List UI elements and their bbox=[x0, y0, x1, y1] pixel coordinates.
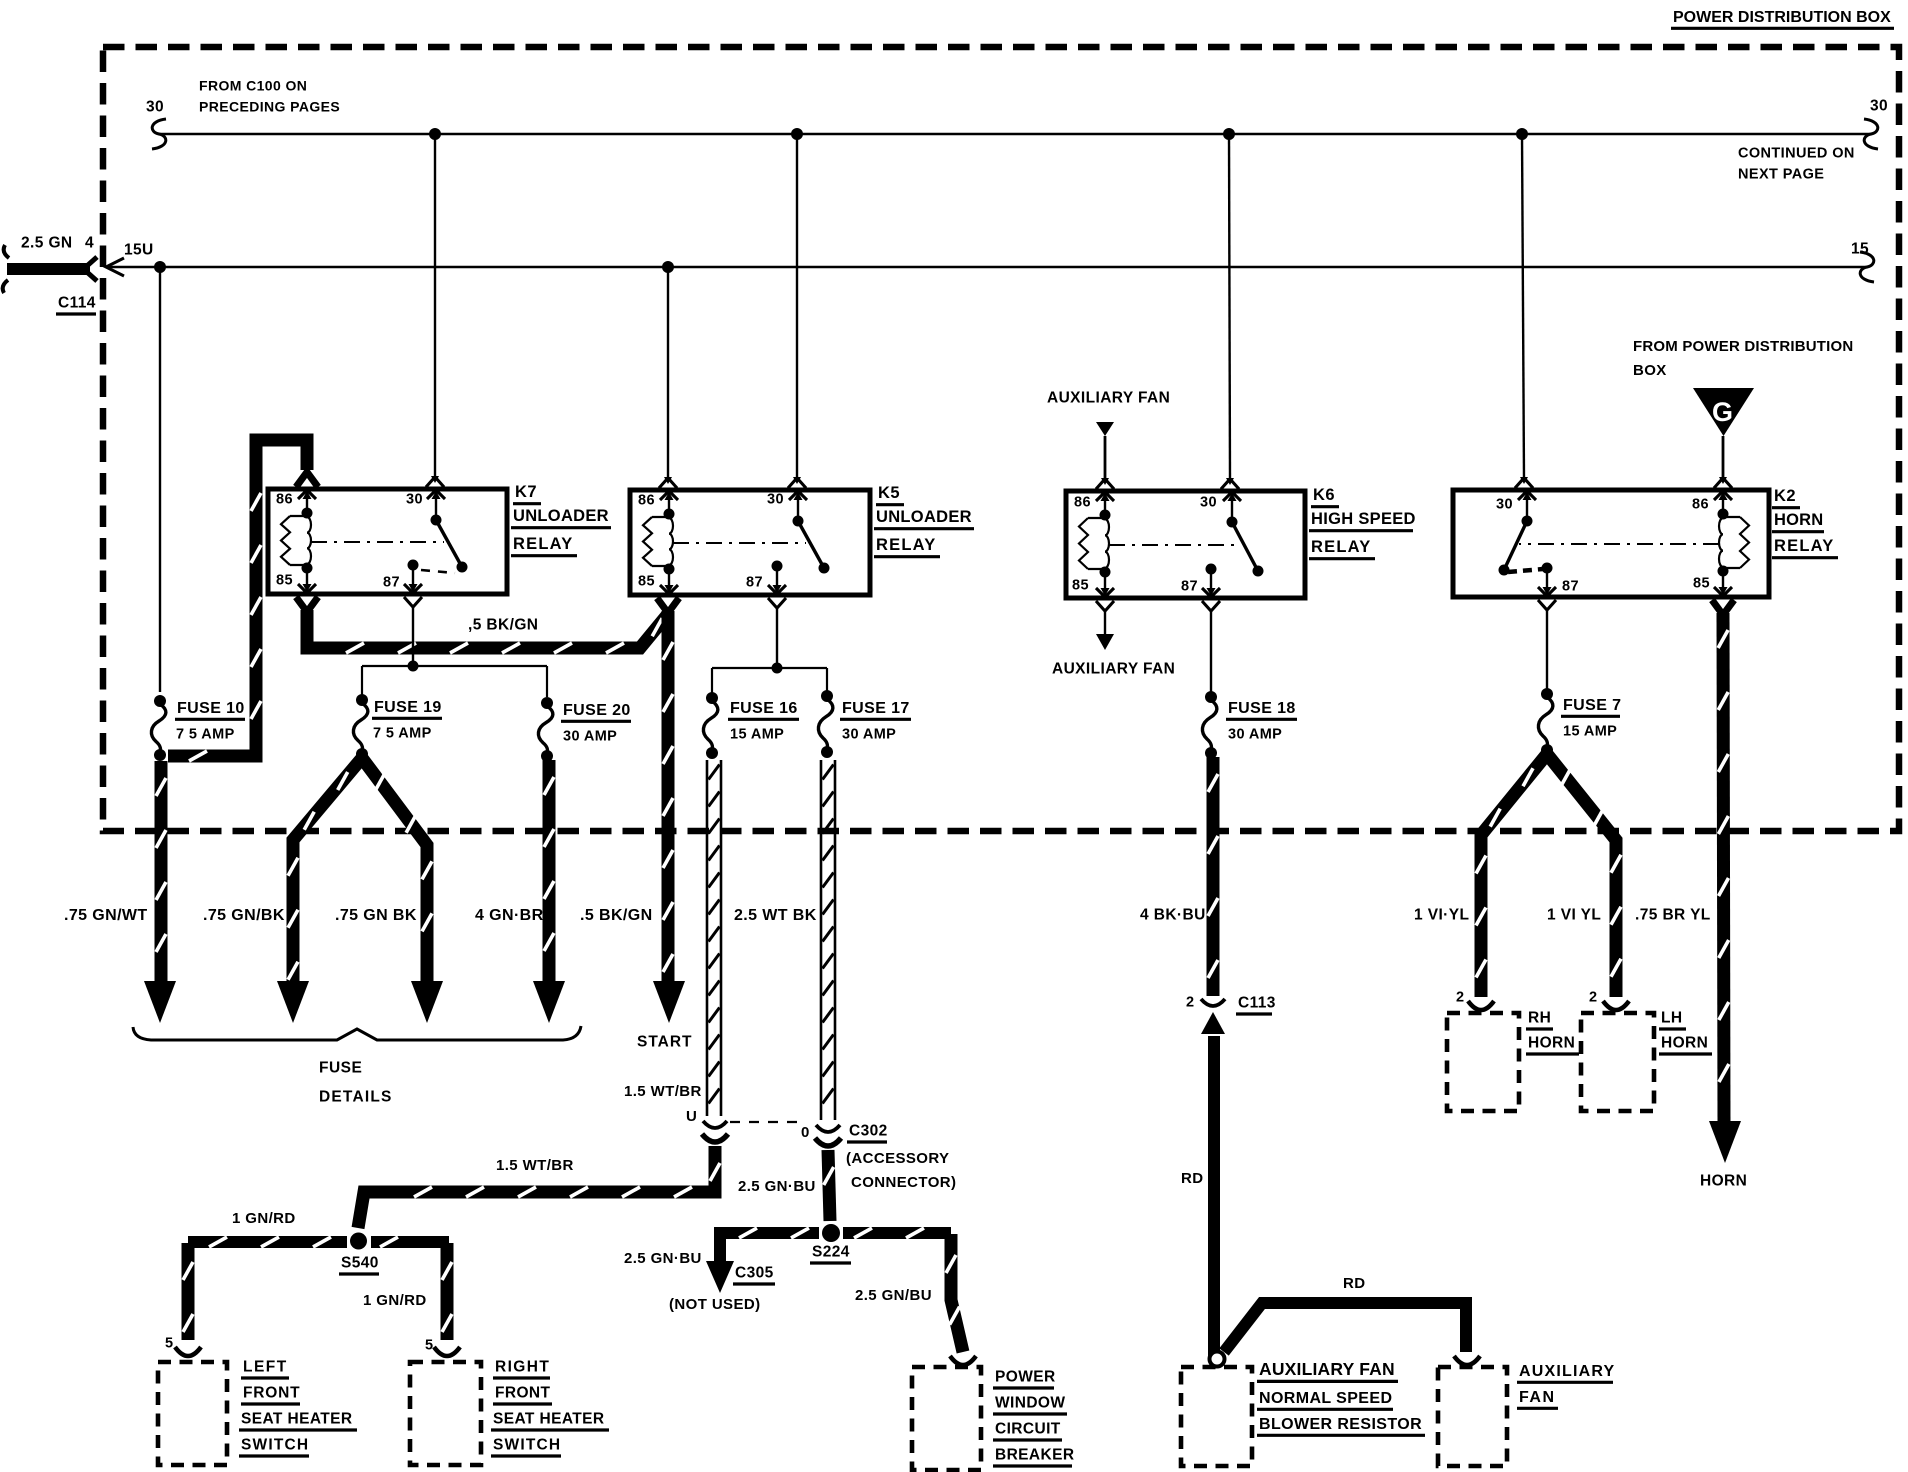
svg-text:AUXILIARY FAN: AUXILIARY FAN bbox=[1047, 390, 1170, 407]
svg-text:2.5 GN/BU: 2.5 GN/BU bbox=[855, 1287, 932, 1304]
label NOT USED bbox=[669, 1296, 761, 1313]
label SWITCH r bbox=[491, 1437, 561, 1457]
svg-text:.5 BK/GN: .5 BK/GN bbox=[580, 907, 653, 924]
svg-text:30 AMP: 30 AMP bbox=[563, 729, 617, 745]
svg-text:7 5 AMP: 7 5 AMP bbox=[176, 727, 235, 743]
svg-text:2: 2 bbox=[1589, 990, 1597, 1006]
component box right seat heater switch bbox=[410, 1362, 481, 1465]
label F17 amps bbox=[842, 727, 896, 743]
svg-text:U: U bbox=[686, 1108, 697, 1125]
label 15U bbox=[124, 242, 154, 259]
svg-text:POWER: POWER bbox=[995, 1369, 1056, 1386]
wire bus30 to K6 pin30 bbox=[1221, 134, 1239, 489]
label 1.5 WT/BR lower bbox=[496, 1157, 574, 1174]
label AUXILIARY FAN box bbox=[1257, 1359, 1398, 1382]
component box RH horn bbox=[1447, 1013, 1519, 1111]
svg-text:1 VI·YL: 1 VI·YL bbox=[1414, 907, 1469, 924]
wire aux fan to K6 pin86 bbox=[1096, 436, 1114, 489]
component box LH horn bbox=[1581, 1013, 1654, 1111]
label C114 bbox=[56, 295, 96, 315]
label K6 bbox=[1311, 486, 1339, 507]
svg-text:SEAT HEATER: SEAT HEATER bbox=[493, 1411, 604, 1428]
label RD upper bbox=[1181, 1170, 1203, 1187]
arrow 4GN-BR bbox=[533, 981, 565, 1023]
svg-text:2.5 GN·BU: 2.5 GN·BU bbox=[738, 1178, 816, 1195]
thick wire fuse20 down bbox=[544, 760, 554, 986]
label S540 bbox=[339, 1255, 379, 1275]
title POWER DISTRIBUTION BOX bbox=[1671, 9, 1894, 29]
label C302 bbox=[847, 1123, 888, 1143]
svg-text:4: 4 bbox=[85, 235, 94, 252]
svg-text:2.5 GN: 2.5 GN bbox=[21, 235, 73, 252]
wire link fuse16-fuse17 bbox=[712, 668, 827, 694]
svg-text:15 AMP: 15 AMP bbox=[1563, 724, 1617, 740]
label SEAT HEATER r bbox=[491, 1411, 609, 1431]
svg-text:5: 5 bbox=[165, 1336, 173, 1352]
svg-text:UNLOADER: UNLOADER bbox=[513, 507, 609, 525]
svg-text:85: 85 bbox=[1072, 578, 1089, 594]
svg-text:C114: C114 bbox=[58, 295, 96, 312]
label AUXILIARY box bbox=[1517, 1363, 1615, 1383]
label K6 pin 86 bbox=[1074, 495, 1091, 511]
label K6 pin 87 bbox=[1181, 579, 1198, 595]
junction bus30/K7 bbox=[429, 128, 441, 140]
wire bus 15 horizontal bbox=[108, 266, 1868, 269]
arrowhead bus15 left bbox=[106, 258, 124, 276]
label RIGHT bbox=[493, 1359, 550, 1379]
svg-text:FRONT: FRONT bbox=[495, 1385, 551, 1402]
svg-text:2.5 WT BK: 2.5 WT BK bbox=[734, 907, 817, 924]
svg-text:AUXILIARY: AUXILIARY bbox=[1519, 1363, 1615, 1380]
relay K2 box bbox=[1453, 490, 1769, 597]
label .75 BR YL bbox=[1635, 907, 1711, 924]
thick wire fuse19 fork left bbox=[288, 758, 362, 986]
hatched wire fuse17 to O bbox=[821, 760, 835, 1120]
thick wire fuse7 fork right bbox=[1547, 754, 1629, 1010]
label K2 RELAY bbox=[1772, 537, 1838, 558]
svg-text:(ACCESSORY: (ACCESSORY bbox=[846, 1150, 949, 1167]
label .75 GN BK bbox=[335, 907, 417, 924]
label 1.5 WT/BR upper bbox=[624, 1083, 702, 1100]
svg-text:1 GN/RD: 1 GN/RD bbox=[232, 1210, 296, 1227]
svg-text:K5: K5 bbox=[878, 484, 900, 502]
svg-text:FUSE 19: FUSE 19 bbox=[374, 699, 442, 716]
svg-text:1 VI YL: 1 VI YL bbox=[1547, 907, 1601, 924]
svg-text:CONNECTOR): CONNECTOR) bbox=[851, 1174, 956, 1191]
label FUSE 19 bbox=[372, 699, 442, 719]
arrow .5BK/GN start bbox=[653, 981, 685, 1023]
svg-text:POWER DISTRIBUTION BOX: POWER DISTRIBUTION BOX bbox=[1673, 9, 1891, 26]
label LEFT bbox=[241, 1359, 289, 1379]
label K6 pin 85 bbox=[1072, 578, 1089, 594]
wire K7-87 down bbox=[404, 597, 422, 666]
junction bus30/K5 bbox=[791, 128, 803, 140]
svg-text:C113: C113 bbox=[1238, 995, 1276, 1012]
junction fuse19/20 link bbox=[408, 661, 419, 672]
svg-text:FROM C100 ON: FROM C100 ON bbox=[199, 77, 307, 93]
power distribution box border (dashed) bbox=[103, 47, 1899, 831]
wire K2-87 down bbox=[1538, 600, 1556, 689]
label K5 UNLOADER bbox=[874, 508, 974, 529]
label FUSE 7 bbox=[1561, 697, 1621, 717]
fuse F20 bbox=[538, 697, 553, 762]
label CIRCUIT bbox=[993, 1421, 1062, 1441]
svg-text:.75 GN BK: .75 GN BK bbox=[335, 907, 417, 924]
svg-text:HORN: HORN bbox=[1661, 1035, 1708, 1052]
label BREAKER bbox=[993, 1447, 1074, 1467]
wire K6 pin85 to aux fan lower bbox=[1096, 601, 1114, 634]
label C305 bbox=[733, 1265, 775, 1285]
svg-text:15: 15 bbox=[1851, 241, 1869, 258]
label F19 amps bbox=[373, 726, 432, 742]
svg-text:7 5 AMP: 7 5 AMP bbox=[373, 726, 432, 742]
svg-text:C305: C305 bbox=[735, 1265, 774, 1282]
hatched wire fuse16 to U bbox=[707, 760, 721, 1116]
component box power window circuit breaker bbox=[912, 1367, 981, 1470]
label 1 GN/RD right bbox=[363, 1292, 427, 1309]
label 5 left bbox=[165, 1336, 173, 1352]
svg-text:87: 87 bbox=[1562, 579, 1579, 595]
svg-text:HORN: HORN bbox=[1774, 511, 1823, 529]
label 2.5 GN 4 bbox=[21, 235, 94, 252]
label .75 GN/BK bbox=[203, 907, 285, 924]
svg-text:SWITCH: SWITCH bbox=[493, 1437, 561, 1454]
thick wire fuse19 fork right bbox=[362, 758, 432, 986]
label K5 RELAY bbox=[874, 536, 940, 557]
wire bus15 to K5 pin86 bbox=[659, 267, 677, 488]
thick wire U to S540 bbox=[358, 1146, 720, 1228]
svg-text:DETAILS: DETAILS bbox=[319, 1089, 393, 1106]
connector C113 bbox=[1201, 999, 1225, 1034]
label SWITCH l bbox=[239, 1437, 309, 1457]
svg-text:87: 87 bbox=[746, 575, 763, 591]
label K2 pin 85 bbox=[1693, 576, 1710, 592]
svg-text:2: 2 bbox=[1456, 990, 1464, 1006]
label CONNECTOR bbox=[851, 1174, 956, 1191]
svg-text:FUSE 10: FUSE 10 bbox=[177, 700, 245, 717]
label F16 amps bbox=[730, 727, 784, 743]
svg-text:(NOT USED): (NOT USED) bbox=[669, 1296, 761, 1313]
svg-text:85: 85 bbox=[1693, 576, 1710, 592]
svg-text:SWITCH: SWITCH bbox=[241, 1437, 309, 1454]
fuse F18 bbox=[1202, 691, 1217, 759]
svg-text:RELAY: RELAY bbox=[876, 536, 936, 554]
svg-text:FUSE 7: FUSE 7 bbox=[1563, 697, 1621, 714]
svg-text:2: 2 bbox=[1186, 995, 1194, 1011]
label 4 BK BU bbox=[1140, 907, 1206, 924]
label K7 RELAY bbox=[511, 535, 577, 556]
svg-text:85: 85 bbox=[638, 574, 655, 590]
svg-text:FAN: FAN bbox=[1519, 1389, 1556, 1406]
junction bus15/K5-86 bbox=[662, 261, 674, 273]
svg-text:FUSE 18: FUSE 18 bbox=[1228, 700, 1296, 717]
svg-text:LH: LH bbox=[1661, 1010, 1682, 1027]
svg-text:86: 86 bbox=[276, 492, 293, 508]
label NORMAL SPEED bbox=[1257, 1390, 1393, 1410]
arrow .75GN/BK bbox=[277, 981, 309, 1023]
thick wire S224 to breaker bbox=[946, 1234, 976, 1365]
label HORN lh bbox=[1659, 1035, 1712, 1055]
svg-text:PRECEDING PAGES: PRECEDING PAGES bbox=[199, 98, 340, 114]
relay K6 box bbox=[1066, 491, 1305, 598]
svg-text:15U: 15U bbox=[124, 242, 154, 259]
label FUSE 20 bbox=[561, 702, 631, 722]
label ACCESSORY bbox=[846, 1150, 949, 1167]
label K7 pin 30 bbox=[406, 492, 423, 508]
label K2 bbox=[1772, 487, 1800, 508]
label NEXT PAGE bbox=[1738, 167, 1824, 183]
solid wire RD down bbox=[1208, 1036, 1220, 1356]
terminal G triangle bbox=[1693, 388, 1754, 436]
svg-text:30: 30 bbox=[1496, 497, 1513, 513]
svg-text:30: 30 bbox=[146, 99, 164, 116]
svg-text:G: G bbox=[1712, 397, 1733, 427]
component box auxiliary fan bbox=[1438, 1367, 1507, 1466]
label 30 left bbox=[146, 99, 164, 116]
label START bbox=[637, 1034, 693, 1051]
wire bus30 to K2 pin30 bbox=[1515, 134, 1533, 488]
label K2 pin 86 bbox=[1692, 497, 1709, 513]
thick wire fuse10 down .75GN/WT bbox=[156, 761, 166, 986]
component box left seat heater switch bbox=[158, 1362, 227, 1465]
svg-text:HORN: HORN bbox=[1528, 1035, 1575, 1052]
svg-text:UNLOADER: UNLOADER bbox=[876, 508, 972, 526]
fuse F17 bbox=[818, 690, 833, 758]
label K7 bbox=[513, 483, 541, 504]
svg-text:30: 30 bbox=[1200, 495, 1217, 511]
svg-text:FUSE 17: FUSE 17 bbox=[842, 700, 910, 717]
junction bus30/K6 bbox=[1223, 128, 1235, 140]
wire bus30 to K7 pin30 bbox=[426, 134, 444, 487]
svg-text:86: 86 bbox=[1074, 495, 1091, 511]
svg-text:RELAY: RELAY bbox=[513, 535, 573, 553]
thick wire S540 to right switch bbox=[434, 1243, 460, 1356]
label LH bbox=[1659, 1010, 1686, 1030]
wire G to K2 pin86 bbox=[1714, 436, 1732, 488]
label K5 bbox=[876, 484, 904, 505]
svg-text:,5 BK/GN: ,5 BK/GN bbox=[468, 617, 538, 634]
svg-text:87: 87 bbox=[383, 575, 400, 591]
connector U (C302) bbox=[702, 1121, 728, 1142]
thick wire O to S224 bbox=[824, 1150, 834, 1221]
svg-text:K7: K7 bbox=[515, 483, 537, 501]
junction bus30/K2 bbox=[1516, 128, 1528, 140]
svg-text:4 BK·BU: 4 BK·BU bbox=[1140, 907, 1206, 924]
svg-text:86: 86 bbox=[638, 493, 655, 509]
label 1 VI YL left bbox=[1414, 907, 1469, 924]
terminal triangle aux fan bottom bbox=[1096, 634, 1114, 650]
svg-text:FUSE: FUSE bbox=[319, 1060, 362, 1077]
svg-text:RIGHT: RIGHT bbox=[495, 1359, 550, 1376]
connector O (C302) bbox=[815, 1125, 841, 1146]
curl bus15 right end bbox=[1860, 252, 1874, 282]
svg-text:FROM POWER DISTRIBUTION: FROM POWER DISTRIBUTION bbox=[1633, 338, 1853, 355]
label K5 pin 30 bbox=[767, 492, 784, 508]
svg-text:CONTINUED ON: CONTINUED ON bbox=[1738, 146, 1855, 162]
label BOX bbox=[1633, 362, 1667, 379]
junction open circle blower bbox=[1210, 1352, 1225, 1367]
label HORN rh bbox=[1526, 1035, 1579, 1055]
label 1 GN/RD left bbox=[232, 1210, 296, 1227]
label FUSE 17 bbox=[840, 700, 911, 720]
label K6 HIGH SPEED bbox=[1309, 510, 1416, 531]
label S224 bbox=[810, 1244, 851, 1264]
fuse F16 bbox=[703, 692, 718, 759]
label K2 pin 87 bbox=[1562, 579, 1579, 595]
label 2.5 GN BU (c302) bbox=[738, 1178, 816, 1195]
svg-text:30: 30 bbox=[767, 492, 784, 508]
arrow .75GN/WT bbox=[144, 981, 176, 1023]
terminal triangle aux fan top bbox=[1096, 422, 1114, 436]
svg-text:FUSE 16: FUSE 16 bbox=[730, 700, 798, 717]
fuse F19 bbox=[353, 694, 368, 760]
label .75 GN/WT bbox=[64, 907, 148, 924]
fuse F7 bbox=[1538, 688, 1553, 756]
label F20 amps bbox=[563, 729, 617, 745]
svg-text:LEFT: LEFT bbox=[243, 1359, 288, 1376]
svg-text:.75 GN/WT: .75 GN/WT bbox=[64, 907, 148, 924]
thick wire S540 to left switch bbox=[175, 1243, 201, 1356]
label K6 pin 30 bbox=[1200, 495, 1217, 511]
arrow .75GN BK bbox=[411, 981, 443, 1023]
svg-text:S224: S224 bbox=[812, 1244, 850, 1261]
svg-text:K6: K6 bbox=[1313, 486, 1335, 504]
label 4 GN-BR bbox=[475, 907, 544, 924]
wire bus30 to K5 pin30 bbox=[788, 134, 806, 488]
label FROM C100 ON bbox=[199, 77, 307, 93]
label SEAT HEATER l bbox=[239, 1411, 357, 1431]
connector C114 bar bbox=[3, 245, 97, 293]
label HORN bbox=[1700, 1173, 1747, 1190]
wire bus 30 horizontal bbox=[158, 133, 1872, 136]
label 2.5 GN/BU (breaker) bbox=[855, 1287, 932, 1304]
label 2 lh bbox=[1589, 990, 1597, 1006]
label FUSE (details) bbox=[319, 1060, 362, 1077]
label K2 HORN bbox=[1772, 511, 1824, 532]
label 5 right bbox=[425, 1338, 433, 1354]
svg-text:K2: K2 bbox=[1774, 487, 1796, 505]
label .5 BK/GN upper bbox=[468, 617, 538, 634]
label K5 pin 87 bbox=[746, 575, 763, 591]
thick wire S224 bar bbox=[714, 1228, 951, 1238]
label K7 pin 86 bbox=[276, 492, 293, 508]
junction fuse16/17 link bbox=[772, 663, 783, 674]
thick wire S540 bar bbox=[188, 1237, 449, 1247]
label FUSE 18 bbox=[1226, 700, 1297, 720]
label 2 rh bbox=[1456, 990, 1464, 1006]
svg-text:5: 5 bbox=[425, 1338, 433, 1354]
label K5 pin 85 bbox=[638, 574, 655, 590]
svg-text:RH: RH bbox=[1528, 1010, 1551, 1027]
thick wire K7-85 to BK/GN bus bbox=[296, 597, 668, 653]
svg-text:4 GN·BR: 4 GN·BR bbox=[475, 907, 544, 924]
svg-text:BLOWER RESISTOR: BLOWER RESISTOR bbox=[1259, 1416, 1422, 1433]
label 2.5 WT BK bbox=[734, 907, 817, 924]
label 1 VI YL right bbox=[1547, 907, 1601, 924]
svg-text:AUXILIARY FAN: AUXILIARY FAN bbox=[1052, 661, 1175, 678]
svg-text:WINDOW: WINDOW bbox=[995, 1395, 1065, 1412]
label AUXILIARY FAN bottom bbox=[1052, 661, 1175, 678]
svg-text:1.5 WT/BR: 1.5 WT/BR bbox=[624, 1083, 702, 1100]
label FROM POWER DISTRIBUTION bbox=[1633, 338, 1853, 355]
label F18 amps bbox=[1228, 727, 1282, 743]
wire K6-87 down bbox=[1202, 601, 1220, 692]
wire bus15 to fuse10 bbox=[159, 267, 161, 692]
label K7 pin 85 bbox=[276, 573, 293, 589]
wire link fuse19-fuse20 bbox=[362, 666, 547, 697]
fuse F10 bbox=[151, 695, 166, 761]
svg-text:START: START bbox=[637, 1034, 693, 1051]
label PRECEDING PAGES bbox=[199, 98, 340, 114]
thick wire S224 to C305 bbox=[714, 1233, 726, 1262]
label FAN box bbox=[1517, 1389, 1558, 1409]
label U bbox=[686, 1108, 697, 1125]
arrow C305 not used bbox=[706, 1261, 734, 1293]
svg-text:HIGH SPEED: HIGH SPEED bbox=[1311, 510, 1416, 528]
label K6 RELAY bbox=[1309, 538, 1375, 559]
label WINDOW bbox=[993, 1395, 1067, 1415]
thick wire K2-85 horn bbox=[1712, 600, 1734, 1124]
svg-text:.75 GN/BK: .75 GN/BK bbox=[203, 907, 285, 924]
label K2 pin 30 bbox=[1496, 497, 1513, 513]
svg-text:NORMAL SPEED: NORMAL SPEED bbox=[1259, 1390, 1392, 1407]
label FRONT r bbox=[493, 1385, 552, 1405]
curl bus30 left end bbox=[152, 119, 166, 149]
svg-text:AUXILIARY FAN: AUXILIARY FAN bbox=[1259, 1359, 1395, 1379]
label AUXILIARY FAN top bbox=[1047, 390, 1170, 407]
curl bus30 right end bbox=[1864, 119, 1878, 149]
wire K5-87 down bbox=[768, 598, 786, 668]
svg-text:BREAKER: BREAKER bbox=[995, 1447, 1074, 1464]
svg-text:30 AMP: 30 AMP bbox=[1228, 727, 1282, 743]
svg-text:.75 BR YL: .75 BR YL bbox=[1635, 907, 1711, 924]
label F7 amps bbox=[1563, 724, 1617, 740]
thick wire fuse18 down 4BK/BU bbox=[1208, 757, 1218, 996]
label DETAILS bbox=[319, 1089, 393, 1106]
junction S540 bbox=[350, 1233, 367, 1250]
svg-text:FUSE 20: FUSE 20 bbox=[563, 702, 631, 719]
label BLOWER RESISTOR bbox=[1257, 1416, 1425, 1436]
thick wire fuse10 to K7 pin86 (hook) bbox=[168, 440, 318, 761]
svg-text:85: 85 bbox=[276, 573, 293, 589]
svg-text:RD: RD bbox=[1343, 1275, 1365, 1292]
svg-text:SEAT HEATER: SEAT HEATER bbox=[241, 1411, 352, 1428]
svg-text:BOX: BOX bbox=[1633, 362, 1667, 379]
label C113 bbox=[1236, 995, 1276, 1015]
label CONTINUED ON bbox=[1738, 146, 1855, 162]
svg-text:30: 30 bbox=[1870, 98, 1888, 115]
label RD lower bbox=[1343, 1275, 1365, 1292]
svg-text:30 AMP: 30 AMP bbox=[842, 727, 896, 743]
junction bus15/fuse10 bbox=[154, 261, 166, 273]
label RH bbox=[1526, 1010, 1553, 1030]
label FUSE 10 bbox=[175, 700, 245, 720]
label 2 (C113) bbox=[1186, 995, 1194, 1011]
svg-text:C302: C302 bbox=[849, 1123, 888, 1140]
label O bbox=[801, 1124, 810, 1141]
svg-text:RELAY: RELAY bbox=[1774, 537, 1834, 555]
svg-text:86: 86 bbox=[1692, 497, 1709, 513]
solid wire RD to aux fan bbox=[1224, 1303, 1480, 1365]
svg-text:HORN: HORN bbox=[1700, 1173, 1747, 1190]
junction S224 bbox=[822, 1224, 840, 1242]
svg-text:1 GN/RD: 1 GN/RD bbox=[363, 1292, 427, 1309]
label K7 UNLOADER bbox=[511, 507, 611, 528]
svg-text:FRONT: FRONT bbox=[243, 1385, 300, 1402]
label 15 right bbox=[1851, 241, 1869, 258]
svg-text:15 AMP: 15 AMP bbox=[730, 727, 784, 743]
label 2.5 GN BU (c305) bbox=[624, 1250, 702, 1267]
